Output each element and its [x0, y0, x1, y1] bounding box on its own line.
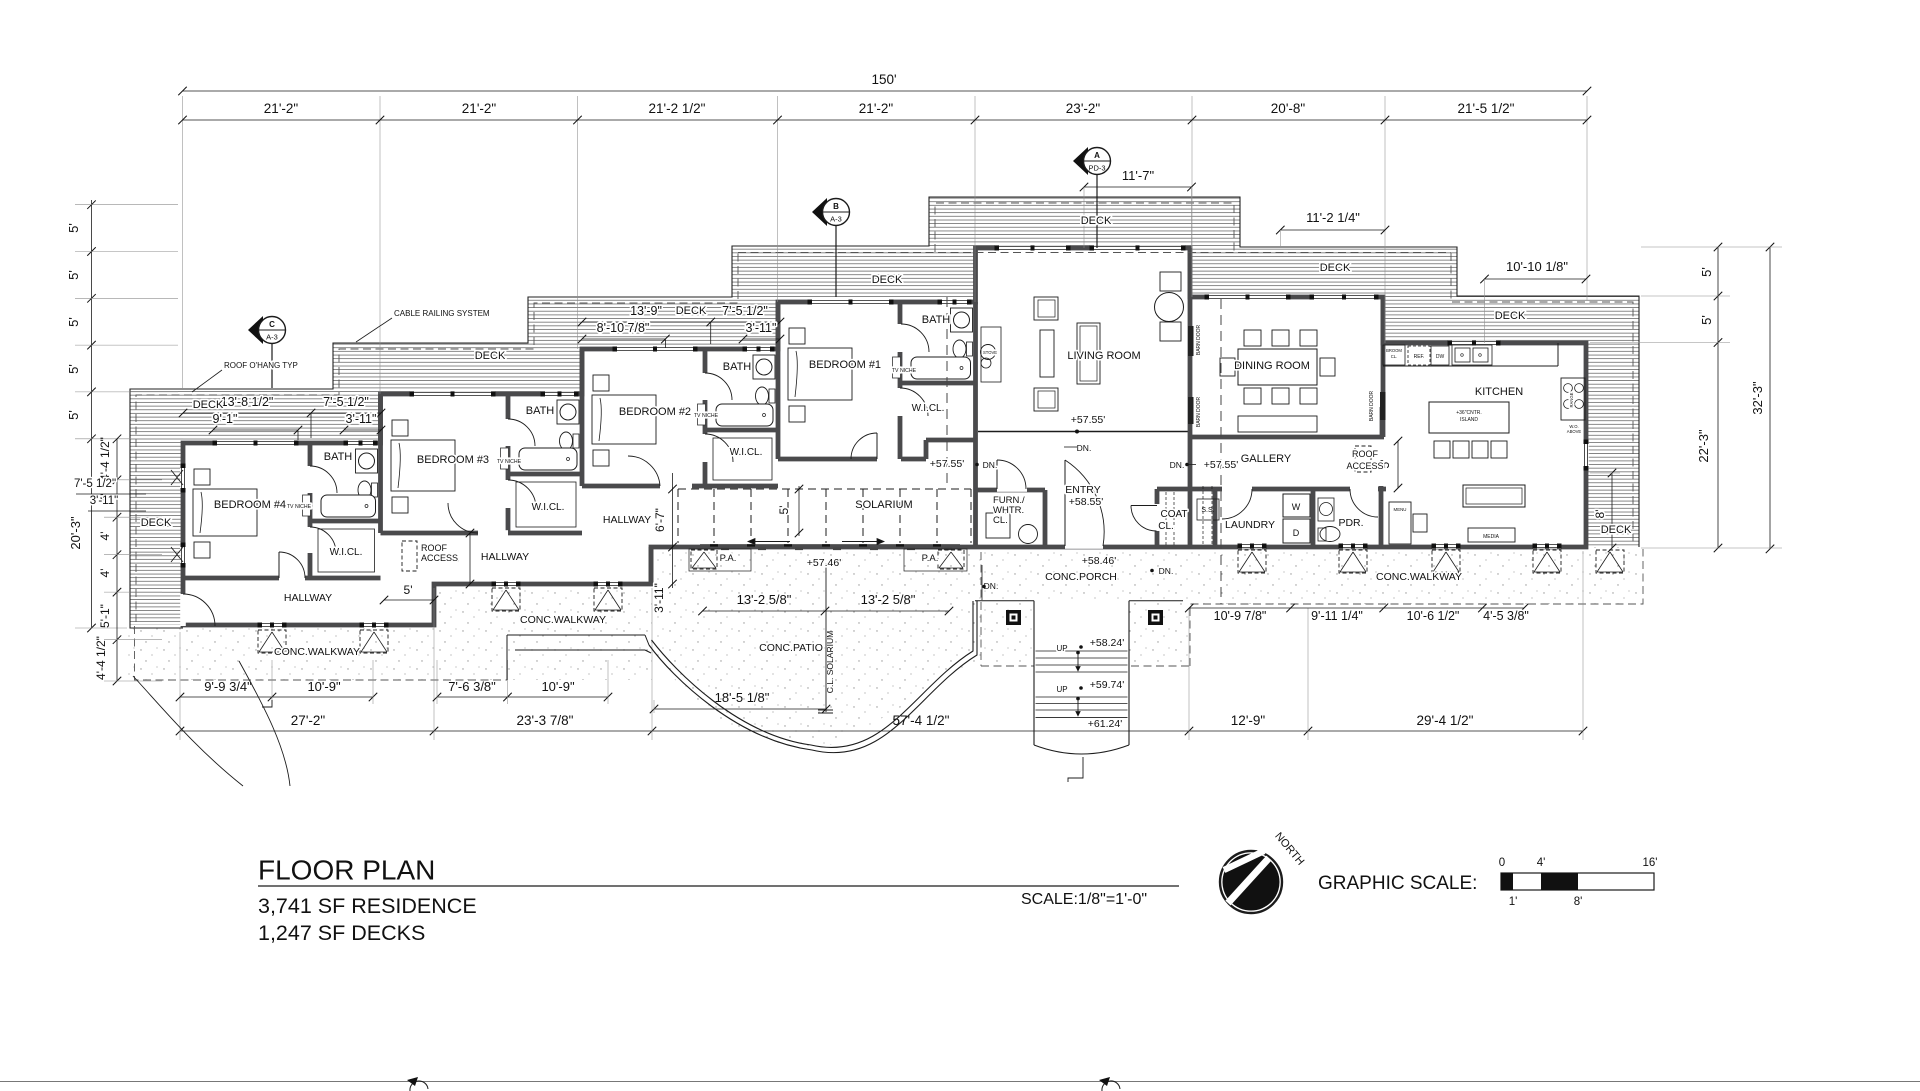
svg-text:SOLARIUM: SOLARIUM	[855, 499, 912, 511]
svg-text:HALLWAY: HALLWAY	[481, 551, 529, 563]
svg-text:21'-2 1/2": 21'-2 1/2"	[649, 101, 706, 116]
concrete patio stipple	[652, 547, 981, 747]
svg-text:BEDROOM #3: BEDROOM #3	[417, 454, 489, 466]
bedroom3 bed + fixtures	[392, 420, 408, 436]
front entry door with swing	[1065, 543, 1103, 549]
svg-text:DN.: DN.	[984, 581, 999, 591]
pa posts solarium	[689, 549, 751, 571]
section marker B/A-3	[812, 198, 827, 226]
svg-text:BEDROOM #1: BEDROOM #1	[809, 359, 881, 371]
svg-text:PDR.: PDR.	[1338, 517, 1363, 529]
svg-text:+58.24': +58.24'	[1090, 637, 1124, 649]
svg-text:3'-11": 3'-11"	[346, 412, 377, 426]
wall bedroom2 bath/wicl split	[705, 428, 778, 433]
coat closet rod dashes	[1165, 492, 1167, 546]
svg-text:RANGE: RANGE	[1569, 392, 1574, 407]
svg-text:6'-7": 6'-7"	[653, 508, 667, 532]
svg-text:D: D	[1293, 528, 1300, 538]
left dimension chain outer	[91, 200, 93, 628]
wall bedroom3 left	[378, 394, 383, 533]
svg-text:BATH: BATH	[723, 361, 752, 373]
svg-text:MENU: MENU	[1394, 507, 1407, 512]
svg-text:TV NICHE: TV NICHE	[287, 504, 312, 510]
door bedroom4 wicl	[307, 527, 313, 553]
svg-text:5': 5'	[66, 223, 81, 233]
svg-text:21'-5 1/2": 21'-5 1/2"	[1458, 101, 1515, 116]
svg-text:23'-2": 23'-2"	[1066, 101, 1101, 116]
deck access cross marks	[171, 470, 183, 485]
svg-text:HALLWAY: HALLWAY	[603, 514, 651, 526]
svg-text:8': 8'	[1574, 896, 1583, 908]
interior 5' dims	[384, 599, 434, 601]
right dimension chain inner 22'-3"	[1717, 247, 1719, 548]
ss shelves	[1197, 499, 1219, 520]
wall furn closet right	[1043, 490, 1048, 546]
svg-text:CL.: CL.	[1158, 521, 1174, 532]
svg-text:CONC.PATIO: CONC.PATIO	[759, 642, 823, 654]
svg-text:DN.: DN.	[983, 460, 998, 470]
dimension 10'-10 1/8" kitchen deck	[1485, 278, 1587, 280]
living room step line (level change)	[978, 431, 1190, 433]
svg-text:P.A.: P.A.	[720, 553, 737, 564]
wall bedroom1 bottom	[778, 457, 877, 462]
svg-text:GRAPHIC SCALE:: GRAPHIC SCALE:	[1318, 873, 1477, 894]
wall bedroom1 left	[776, 302, 781, 459]
svg-text:1,247 SF DECKS: 1,247 SF DECKS	[258, 921, 425, 945]
bedroom4 window dimensions	[183, 412, 381, 414]
svg-text:HALLWAY: HALLWAY	[284, 592, 332, 604]
left chain extension lines	[75, 204, 178, 206]
svg-text:+57.55': +57.55'	[930, 458, 964, 470]
patio dimension 18'-5 1/8"	[654, 708, 826, 710]
svg-text:+58.55': +58.55'	[1069, 496, 1103, 508]
bedroom2 bed + fixtures	[593, 375, 609, 391]
svg-text:+58.46': +58.46'	[1082, 555, 1116, 567]
svg-text:32'-3": 32'-3"	[1750, 381, 1765, 415]
svg-text:B: B	[833, 202, 839, 211]
svg-text:8': 8'	[1593, 510, 1607, 519]
svg-text:DECK: DECK	[475, 350, 506, 362]
svg-text:5': 5'	[1699, 267, 1714, 277]
north arrow	[1220, 851, 1282, 913]
bedroom1 bed + fixtures	[789, 328, 805, 344]
svg-text:COAT: COAT	[1160, 509, 1187, 520]
svg-text:DECK: DECK	[1081, 215, 1112, 227]
wall bedroom3/bath divider	[506, 394, 511, 533]
svg-text:W.I.CL.: W.I.CL.	[912, 403, 945, 414]
concrete porch and right walkway stipple	[981, 547, 1640, 664]
wall hallway step solarium	[649, 547, 654, 584]
svg-text:PD-3: PD-3	[1088, 164, 1105, 173]
svg-text:C.L. SOLARIUM: C.L. SOLARIUM	[825, 631, 835, 693]
svg-text:DN.: DN.	[1077, 443, 1092, 453]
section dashed line through dining room	[1220, 299, 1222, 604]
svg-text:DW: DW	[1436, 354, 1445, 360]
svg-text:CONC.WALKWAY: CONC.WALKWAY	[1376, 571, 1462, 583]
svg-text:DECK: DECK	[193, 399, 224, 411]
walkway dimensions left	[180, 696, 373, 698]
wall pdr right	[1379, 486, 1384, 546]
porch posts	[1006, 610, 1021, 625]
svg-text:10'-9 7/8": 10'-9 7/8"	[1214, 609, 1267, 623]
svg-text:10'-9": 10'-9"	[541, 679, 575, 694]
svg-text:7'-6 3/8": 7'-6 3/8"	[448, 679, 496, 694]
svg-text:16': 16'	[1643, 857, 1658, 869]
svg-text:3,741 SF RESIDENCE: 3,741 SF RESIDENCE	[258, 894, 477, 918]
svg-text:BROOM: BROOM	[1386, 348, 1402, 353]
window kitchen right wall	[1583, 440, 1588, 470]
svg-text:5': 5'	[66, 270, 81, 280]
svg-text:CABLE RAILING SYSTEM: CABLE RAILING SYSTEM	[394, 309, 490, 318]
wall bedroom1 bath/wicl split	[900, 381, 976, 386]
stairs to porch	[981, 665, 1190, 667]
svg-text:BATH: BATH	[526, 405, 555, 417]
svg-text:4'-4 1/2": 4'-4 1/2"	[94, 636, 108, 680]
svg-text:29'-4 1/2": 29'-4 1/2"	[1417, 713, 1474, 728]
svg-text:ENTRY: ENTRY	[1065, 484, 1100, 496]
wall bedroom2 bottom	[582, 484, 778, 489]
svg-text:11'-2 1/4": 11'-2 1/4"	[1306, 210, 1360, 225]
dimension 11'-2 1/4" deck	[1280, 229, 1385, 231]
svg-text:ABOVE: ABOVE	[1567, 429, 1582, 434]
svg-text:13'-8 1/2": 13'-8 1/2"	[221, 395, 274, 409]
door bedroom1 entry	[851, 433, 877, 459]
page edge marker stubs	[410, 1081, 428, 1091]
dining table and chairs	[1238, 349, 1317, 385]
section marker C/A-3	[248, 316, 263, 344]
door furn closet	[997, 486, 1027, 492]
door pdr	[1350, 486, 1378, 492]
svg-text:DN.: DN.	[1159, 566, 1174, 576]
svg-text:10'-9": 10'-9"	[307, 679, 341, 694]
solarium wall glazing marks	[710, 544, 718, 547]
svg-text:13'-2 5/8": 13'-2 5/8"	[861, 592, 916, 607]
door hallway1 left	[180, 594, 186, 626]
svg-text:+57.55': +57.55'	[1071, 414, 1105, 426]
patio dimensions 13'-2 5/8"	[703, 610, 950, 612]
svg-text:+61.24': +61.24'	[1088, 718, 1122, 730]
deck hatched area	[130, 197, 1639, 628]
svg-text:BARN DOOR: BARN DOOR	[1196, 324, 1202, 355]
door bedroom4 bath	[307, 466, 313, 493]
svg-text:4': 4'	[1537, 857, 1546, 869]
windows dining room top wall	[1205, 294, 1290, 299]
bottom dimension chain	[180, 730, 1583, 732]
svg-text:P.A.: P.A.	[922, 553, 939, 564]
svg-text:4': 4'	[98, 532, 112, 541]
svg-text:0: 0	[1499, 857, 1505, 869]
exterior wall envelope	[183, 248, 1586, 625]
overall dimension 150ft	[183, 90, 1588, 92]
door bedroom2 bath	[702, 373, 708, 400]
wall living/dining	[1188, 248, 1193, 546]
wall bedroom4/bath divider	[308, 443, 313, 578]
barn door panels	[1188, 326, 1194, 356]
wall ss/laundry	[1213, 489, 1218, 546]
svg-text:DINING ROOM: DINING ROOM	[1234, 360, 1310, 372]
door bedroom1 bath	[897, 324, 903, 352]
svg-text:ROOF O'HANG TYP: ROOF O'HANG TYP	[224, 361, 298, 370]
section dashed line through bedroom1 bath	[946, 297, 948, 489]
roof overhang dashed line around deck	[136, 253, 738, 623]
svg-text:DECK: DECK	[141, 517, 172, 529]
window wells walkway	[258, 630, 286, 653]
svg-text:11'-7": 11'-7"	[1122, 168, 1155, 183]
wall bedroom1 wicl bottom	[926, 438, 976, 443]
kitchen range	[1561, 378, 1585, 420]
laundry washer dryer	[1283, 494, 1310, 517]
living room furniture	[1034, 297, 1058, 320]
menu desk	[1389, 502, 1411, 544]
solarium sliding door arrows	[748, 541, 790, 543]
svg-text:150': 150'	[871, 72, 896, 87]
svg-text:8'-10 7/8": 8'-10 7/8"	[597, 321, 650, 335]
bedroom4 bed + fixtures	[194, 469, 210, 485]
building envelope fill	[183, 248, 1586, 625]
concrete walkway left stipple	[127, 584, 652, 680]
svg-text:20'-3": 20'-3"	[68, 516, 83, 550]
svg-text:BEDROOM #2: BEDROOM #2	[619, 406, 691, 418]
windows left wall bedroom4	[180, 464, 185, 492]
svg-text:ISLAND: ISLAND	[1460, 417, 1478, 423]
svg-text:BATH: BATH	[922, 314, 951, 326]
svg-text:W.I.CL.: W.I.CL.	[730, 447, 763, 458]
walkway dimensions right	[1189, 607, 1524, 609]
svg-text:10'-6 1/2": 10'-6 1/2"	[1407, 609, 1460, 623]
svg-text:9'-1": 9'-1"	[213, 412, 238, 426]
svg-text:7'-5 1/2": 7'-5 1/2"	[323, 395, 369, 409]
svg-text:23'-3 7/8": 23'-3 7/8"	[517, 713, 574, 728]
svg-text:MEDIA: MEDIA	[1483, 534, 1500, 540]
svg-text:DN.: DN.	[1170, 460, 1185, 470]
svg-text:ROOF: ROOF	[1352, 449, 1379, 459]
svg-text:W.I.CL.: W.I.CL.	[330, 547, 363, 558]
svg-text:9'-9 3/4": 9'-9 3/4"	[204, 679, 252, 694]
svg-text:BATH: BATH	[324, 451, 353, 463]
svg-text:21'-2": 21'-2"	[462, 101, 497, 116]
door laundry	[1222, 486, 1252, 492]
pdr fixtures	[1318, 498, 1334, 521]
svg-text:C: C	[269, 320, 275, 329]
kitchen sofa and media	[1463, 485, 1525, 507]
site contour curves bottom left	[133, 676, 243, 786]
wall bedroom2/bath divider	[703, 349, 708, 486]
svg-text:21'-2": 21'-2"	[859, 101, 894, 116]
svg-text:FLOOR PLAN: FLOOR PLAN	[258, 855, 435, 886]
windows bedroom4 top wall	[213, 440, 298, 445]
right dimension chain outer 32'-3"	[1769, 247, 1771, 549]
bedroom2 window dimensions	[582, 321, 711, 323]
furn room fixtures	[986, 513, 1010, 538]
wall living room left	[973, 302, 978, 546]
svg-text:20'-8": 20'-8"	[1271, 101, 1306, 116]
door bedroom4 entry	[279, 575, 305, 581]
door bedroom2 wicl	[702, 434, 708, 462]
svg-text:SCALE:1/8"=1'-0": SCALE:1/8"=1'-0"	[1021, 891, 1147, 908]
svg-text:A: A	[1094, 151, 1100, 160]
svg-text:4': 4'	[98, 569, 112, 578]
svg-text:4'-4 1/2": 4'-4 1/2"	[98, 437, 112, 481]
svg-text:5': 5'	[1699, 315, 1714, 325]
solarium centerline	[825, 563, 827, 712]
windows bottom walls with wells	[258, 622, 286, 627]
svg-text:4'-5 3/8": 4'-5 3/8"	[1483, 609, 1529, 623]
svg-text:CONC.PORCH: CONC.PORCH	[1045, 571, 1117, 583]
svg-text:GALLERY: GALLERY	[1241, 453, 1292, 465]
windows bedroom3 top wall	[410, 391, 495, 396]
wood stove living room	[981, 327, 1001, 382]
patio curved edge double line	[649, 601, 977, 753]
svg-text:21'-2": 21'-2"	[264, 101, 299, 116]
right chain extension lines	[1641, 246, 1782, 248]
svg-text:TV NICHE: TV NICHE	[892, 368, 917, 374]
svg-text:13'-9": 13'-9"	[630, 304, 662, 318]
dimension 8' deck right	[1611, 473, 1613, 548]
svg-text:DECK: DECK	[676, 305, 707, 317]
walkway step to patio	[507, 634, 645, 636]
windows bedroom1 top wall	[808, 299, 893, 304]
svg-text:BARN DOOR: BARN DOOR	[1369, 390, 1375, 421]
svg-text:UP: UP	[1056, 644, 1067, 653]
svg-text:1': 1'	[1509, 896, 1518, 908]
svg-text:LIVING ROOM: LIVING ROOM	[1067, 350, 1140, 362]
wall bedroom1/bath divider	[898, 302, 903, 459]
door bedroom2 entry	[660, 483, 692, 489]
wall laundry/pdr	[1311, 489, 1316, 546]
left dimension chain inner	[116, 439, 118, 681]
svg-text:CONC.WALKWAY: CONC.WALKWAY	[520, 614, 606, 626]
solarium dashed structure	[678, 488, 971, 490]
svg-text:3'-11": 3'-11"	[652, 583, 666, 613]
svg-text:7'-5 1/2": 7'-5 1/2"	[74, 478, 116, 490]
walkway left dashed boundary	[135, 626, 508, 680]
svg-text:CL.: CL.	[993, 515, 1008, 526]
svg-text:KITCHEN: KITCHEN	[1475, 386, 1523, 398]
svg-text:W.I.CL.: W.I.CL.	[532, 502, 565, 513]
roof overhang dashed line crossing living room	[738, 252, 1451, 254]
kitchen island	[1429, 402, 1509, 433]
svg-text:13'-2 5/8": 13'-2 5/8"	[737, 592, 792, 607]
extension lines from top dims	[182, 96, 184, 390]
svg-text:5': 5'	[66, 317, 81, 327]
deck outer boundary outline	[130, 197, 1639, 628]
top segment dimensions	[183, 119, 1588, 121]
svg-text:5'-1": 5'-1"	[98, 604, 112, 628]
svg-text:A-3: A-3	[830, 215, 842, 224]
svg-text:S.S.: S.S.	[1201, 507, 1214, 514]
page edge separator line	[0, 1081, 1920, 1083]
svg-text:DECK: DECK	[1601, 524, 1632, 536]
svg-text:TV NICHE: TV NICHE	[694, 413, 719, 419]
window kitchen top wall	[1448, 340, 1500, 345]
roof access dashed box gallery	[1355, 446, 1371, 472]
dimension 11'-7" living window	[1084, 186, 1192, 188]
stair up arrows	[1076, 651, 1080, 655]
wall bedroom3/hallway	[381, 531, 583, 536]
roof access dashed box hallway	[402, 541, 417, 571]
wall coat closet left	[1155, 489, 1160, 546]
svg-text:ROOF: ROOF	[421, 543, 448, 553]
stair bottom curved edge	[1034, 745, 1129, 754]
svg-text:STOVE: STOVE	[983, 350, 997, 355]
svg-text:+59.74': +59.74'	[1090, 679, 1124, 691]
svg-text:5': 5'	[66, 364, 81, 374]
svg-text:CONC.WALKWAY: CONC.WALKWAY	[274, 646, 360, 658]
svg-text:27'-2": 27'-2"	[291, 713, 326, 728]
wall bedroom2 left	[580, 349, 585, 486]
door bedroom1 wicl	[897, 388, 903, 416]
svg-text:5': 5'	[777, 506, 791, 515]
svg-text:ACCESS: ACCESS	[1346, 461, 1383, 471]
door coat closet	[1154, 504, 1160, 531]
svg-text:CL.: CL.	[1391, 354, 1398, 359]
svg-text:+36"CNTR.: +36"CNTR.	[1456, 410, 1482, 416]
wall dining bottom	[1192, 435, 1384, 440]
svg-text:TV NICHE: TV NICHE	[497, 459, 522, 465]
walkway right / porch dashed boundary	[980, 552, 982, 666]
svg-text:UP: UP	[1056, 685, 1067, 694]
svg-text:+57.46': +57.46'	[807, 557, 841, 569]
windows bedroom2 top wall	[613, 346, 697, 351]
svg-text:3'-11": 3'-11"	[90, 495, 118, 507]
svg-text:DECK: DECK	[1495, 310, 1526, 322]
wall dining/kitchen	[1381, 297, 1386, 437]
svg-text:+57.55': +57.55'	[1204, 459, 1238, 471]
svg-text:DECK: DECK	[872, 274, 903, 286]
svg-text:BARN DOOR: BARN DOOR	[1196, 396, 1202, 427]
svg-text:7'-5 1/2": 7'-5 1/2"	[722, 304, 768, 318]
svg-text:12'-9": 12'-9"	[1231, 713, 1266, 728]
svg-text:REF.: REF.	[1414, 354, 1425, 360]
door bedroom3 bath	[505, 419, 511, 446]
section marker A/PD-3	[1073, 147, 1088, 175]
wall bedroom4/hallway	[183, 576, 381, 581]
svg-text:10'-10 1/8": 10'-10 1/8"	[1506, 259, 1568, 274]
wall gallery bottom / entry rooms top	[1157, 487, 1386, 492]
svg-text:DECK: DECK	[1320, 262, 1351, 274]
kitchen counters and appliances	[1383, 365, 1558, 367]
windows living room top wall	[995, 245, 1070, 250]
bottom extension lines	[179, 632, 181, 740]
svg-text:BEDROOM #4: BEDROOM #4	[214, 499, 286, 511]
svg-text:5': 5'	[66, 410, 81, 420]
wall bedroom3 bath/wicl split	[508, 472, 582, 477]
door bedroom3 wicl	[505, 480, 511, 508]
svg-text:9'-11 1/4": 9'-11 1/4"	[1311, 609, 1363, 623]
door bedroom3 entry	[478, 530, 508, 536]
svg-text:ACCESS: ACCESS	[421, 553, 458, 563]
tv niche jogs	[303, 495, 311, 516]
wall furn closet top	[976, 488, 1046, 493]
svg-text:W: W	[1292, 502, 1301, 512]
svg-text:LAUNDRY: LAUNDRY	[1225, 519, 1275, 531]
svg-text:18'-5 1/8": 18'-5 1/8"	[715, 690, 770, 705]
wall bedroom4 bath/wicl split	[310, 519, 381, 524]
svg-text:22'-3": 22'-3"	[1696, 429, 1711, 463]
svg-text:3'-11": 3'-11"	[746, 321, 777, 335]
svg-text:5': 5'	[404, 583, 413, 597]
svg-text:A-3: A-3	[266, 333, 278, 342]
